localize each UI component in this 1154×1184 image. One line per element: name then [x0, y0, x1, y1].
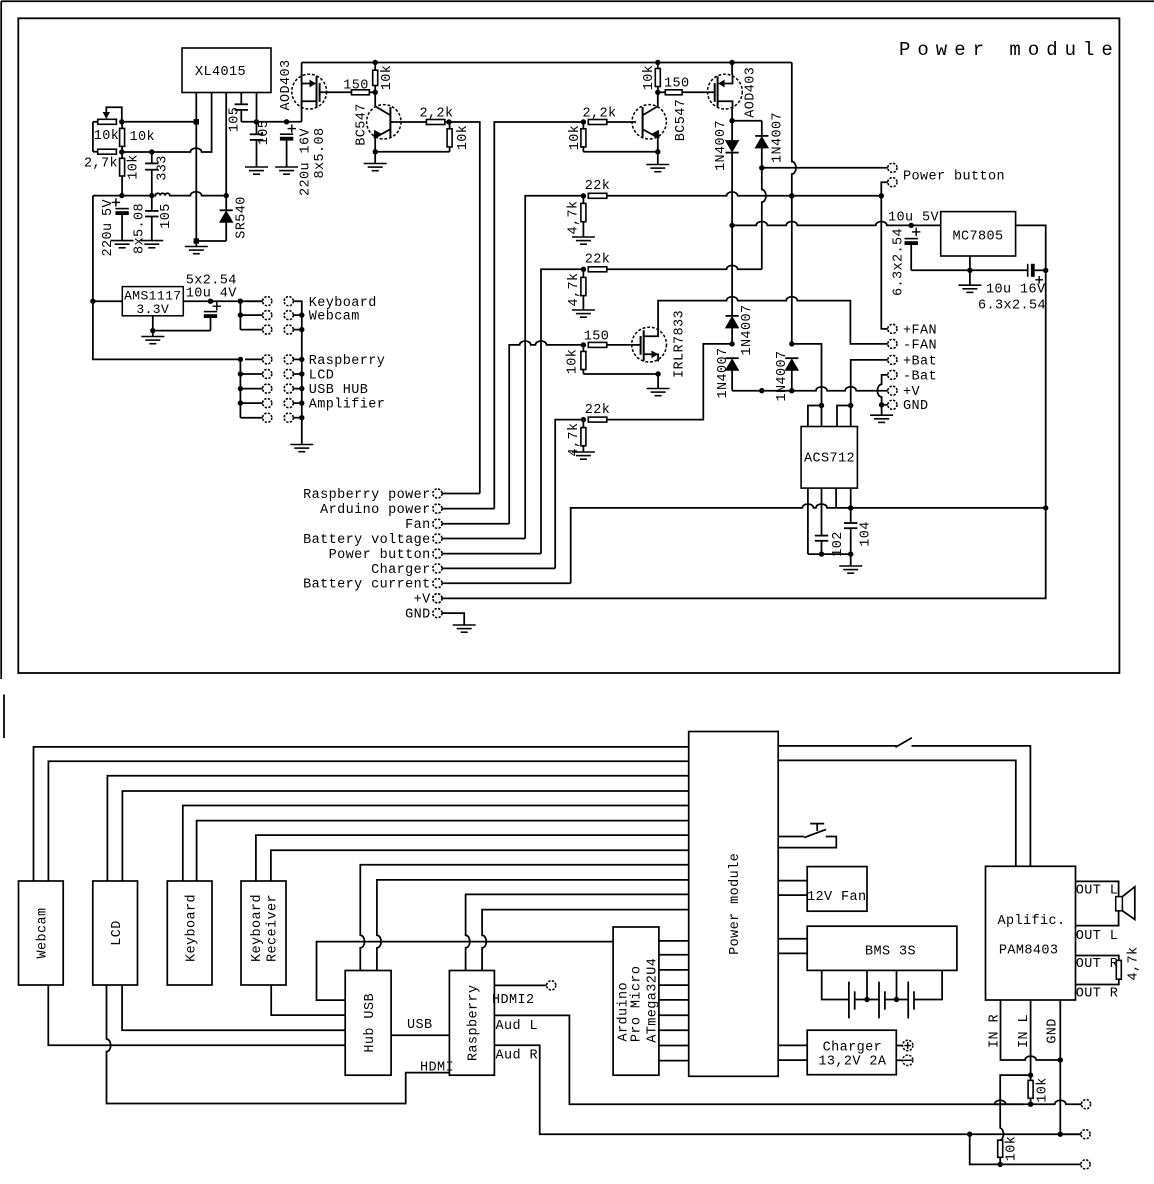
wire D3 to MC7805 input node	[731, 153, 733, 226]
pin circle +FAN	[888, 324, 897, 333]
svg-text:Raspberry power: Raspberry power	[303, 488, 431, 503]
junction dot gnd node right	[879, 402, 884, 407]
Q5 internals	[644, 328, 658, 337]
svg-text:Amplifier: Amplifier	[309, 398, 386, 413]
wire viout line hops to VCC node	[836, 507, 1046, 509]
wire input bus y196 with inductor and hop	[93, 192, 226, 196]
wire hub usb pin1	[360, 865, 688, 971]
resistor R3 2,7k horizontal	[98, 149, 117, 154]
wire bms balance taps	[866, 970, 868, 999]
svg-text:USB: USB	[407, 1018, 433, 1033]
wire stub fan	[442, 523, 509, 525]
wire arduino-pm links	[659, 940, 689, 942]
svg-text:Keyboard: Keyboard	[309, 296, 377, 311]
wire PAM OUT L bottom	[1076, 911, 1119, 926]
junction dot IN L node	[1028, 1072, 1033, 1077]
wire +5V column to +V output line	[442, 508, 1046, 599]
svg-text:Receiver: Receiver	[265, 894, 280, 962]
svg-text:6.3x2.54: 6.3x2.54	[978, 298, 1046, 313]
wire group2 right column to gnd	[293, 358, 302, 360]
svg-text:OUT R: OUT R	[1076, 957, 1119, 972]
svg-text:333: 333	[156, 155, 171, 181]
resistor R9 2,2k base 2	[588, 120, 607, 125]
junction dot R22 bottom on aud L line	[1028, 1102, 1033, 1107]
junction dot IP+ bracket	[819, 403, 824, 408]
wire XL4015 pin3 down to SR540 node	[225, 93, 227, 196]
capacitor C9 10u 16V electrolytic horizontal	[1027, 264, 1029, 277]
wire block4 right to colA mid node	[607, 344, 732, 420]
diode D3 1N4007 (pointing down)	[726, 152, 739, 154]
wire colC down to mid node	[791, 196, 793, 344]
pin circle +V output	[433, 594, 442, 603]
junction dot colA mid	[729, 341, 734, 346]
svg-text:GND: GND	[1045, 1018, 1060, 1044]
resistor R11 10k pullup 2	[657, 63, 659, 69]
speaker LS1	[1116, 897, 1123, 911]
wire webcam pin2	[48, 761, 688, 881]
svg-text:+V: +V	[903, 385, 921, 400]
wire R17 to Q5 gate	[607, 344, 640, 346]
svg-text:150: 150	[584, 330, 610, 345]
capacitor C1 220u 5V electrolytic	[112, 201, 120, 203]
wire AMS1117 gnd pin	[152, 316, 154, 331]
wire pm to fan 1	[778, 880, 807, 882]
wire group1 right column to gnd rail	[293, 301, 302, 444]
junction dot input cap	[909, 223, 914, 228]
wire AOD403 Q1 source to top rail	[301, 63, 303, 122]
Q2 internals	[374, 92, 376, 106]
svg-text:10u 5V: 10u 5V	[888, 210, 940, 225]
wire stub raspberry power	[442, 493, 480, 495]
wire kb receiver pin1	[256, 835, 689, 881]
junction dot 7805 gnd	[967, 268, 972, 273]
junction dot Q5 source	[655, 371, 660, 376]
wire pm to amplifier power with switch	[778, 745, 897, 747]
svg-text:Webcam: Webcam	[309, 310, 360, 325]
resistor R20 4,7k block4	[582, 420, 584, 428]
wire row webcam stub	[240, 314, 262, 316]
resistor R22 10k aud L mix	[1030, 1075, 1032, 1080]
svg-text:BC547: BC547	[355, 103, 370, 146]
block Aplific PAM8403	[986, 866, 1076, 1000]
pin circle GND right	[888, 400, 897, 409]
svg-text:102: 102	[831, 531, 846, 557]
wire IN L branch to aud R mix	[1000, 1075, 1030, 1140]
svg-text:Hub USB: Hub USB	[363, 993, 378, 1053]
svg-text:-FAN: -FAN	[903, 338, 937, 353]
wire PAM IN L pin	[1030, 1000, 1032, 1075]
junction dots group2 left column	[238, 371, 243, 376]
resistor R16 4,7k block2	[582, 269, 584, 277]
wire row Keyboard left stub	[245, 300, 263, 302]
wire push button return	[778, 837, 836, 848]
transistor Q3 BC547 NPN circle (mirrored)	[632, 105, 666, 139]
junction dot output cap 10u	[208, 299, 213, 304]
svg-text:Battery current: Battery current	[303, 578, 431, 593]
ground symbol Q5 source	[657, 374, 659, 389]
wire battery current riser to VIOUT	[571, 504, 836, 583]
wire webcam pin1 to power module	[34, 747, 689, 881]
ground symbol under C4	[245, 166, 268, 168]
wire pin3 to SR540 cathode	[225, 196, 227, 211]
wire webcam bottom to hub	[48, 985, 345, 1045]
wire PAM OUT R bottom	[1076, 979, 1119, 984]
wire IP+ bracket	[808, 406, 822, 427]
junction dot AMS input	[90, 299, 95, 304]
wire pm to bms 2	[778, 952, 807, 954]
wire IP- bracket	[837, 406, 851, 427]
capacitor C8 10u 5V electrolytic	[912, 231, 920, 233]
svg-text:Aud L: Aud L	[496, 1019, 539, 1034]
ground symbol Q3	[657, 152, 659, 165]
svg-text:2,2k: 2,2k	[582, 107, 616, 122]
junction dot Q2 emitter	[373, 149, 378, 154]
block Webcam	[19, 881, 64, 985]
svg-text:1N4007: 1N4007	[716, 347, 731, 398]
wire +V line from colA to pin	[732, 387, 888, 391]
svg-text:Power module: Power module	[899, 39, 1120, 61]
wire gnd pin to aud R line	[1059, 1060, 1061, 1134]
svg-text:220u 16V: 220u 16V	[298, 127, 313, 196]
svg-text:+Bat: +Bat	[903, 354, 937, 369]
wire R8 bottom to emitter	[375, 151, 449, 153]
wire switch to PAM8403 top	[912, 746, 1031, 866]
svg-text:Pro Micro: Pro Micro	[630, 966, 645, 1043]
block 12V Fan	[807, 867, 867, 912]
junction dot pin5/output	[254, 119, 259, 124]
svg-text:MC7805: MC7805	[952, 230, 1003, 245]
svg-text:10u 4V: 10u 4V	[186, 287, 238, 302]
resistor R19 22k block4	[588, 417, 607, 422]
ground symbol 7805	[969, 270, 971, 285]
transistor Q2 BC547 NPN circle	[367, 105, 401, 139]
block Charger	[807, 1030, 896, 1075]
svg-text:105: 105	[159, 203, 174, 229]
svg-text:4,7k: 4,7k	[567, 200, 582, 234]
svg-text:10k: 10k	[94, 129, 120, 144]
resistor R15 22k block2	[588, 267, 607, 272]
wire -Bat to gnd node	[877, 375, 887, 405]
svg-text:HDMI: HDMI	[420, 1061, 454, 1076]
wire colA node to D3 and down	[731, 121, 733, 141]
resistor R5 150 gate	[352, 90, 370, 95]
svg-text:AOD403: AOD403	[279, 59, 294, 110]
wire signal raspberry-power riser	[449, 122, 480, 494]
wire aud R down to mix resistor line	[970, 1134, 1081, 1164]
wire pm to charger 2	[778, 1059, 807, 1061]
svg-text:13,2V 2A: 13,2V 2A	[818, 1055, 887, 1070]
wire R9 to Q3 base	[607, 121, 636, 123]
ground symbol block2	[572, 309, 595, 311]
resistor R21 4,7k speaker load	[1116, 960, 1121, 979]
wire row3 stub	[240, 329, 262, 331]
svg-text:150: 150	[664, 77, 690, 92]
pin circles group2 column A	[263, 355, 272, 364]
wire R7 to node	[445, 121, 449, 123]
junction dot gate node Q1	[373, 90, 378, 95]
pin circle jack tip	[1081, 1100, 1090, 1109]
wire PAM IN R pin to gnd link	[1001, 1000, 1061, 1060]
junction dot C9 right	[1043, 268, 1048, 273]
pin circles group2 column B	[284, 355, 293, 364]
wire lcd pin4 to hub	[122, 985, 345, 1030]
pin circles group1 column B	[284, 297, 293, 306]
svg-text:Charger: Charger	[371, 563, 431, 578]
pin circle HDMI2	[547, 981, 556, 990]
wire AMS1117 output to connector	[183, 300, 262, 302]
wire ACS VCC pin and cap 104	[850, 488, 852, 523]
wire keyboard pin1	[183, 806, 689, 882]
ground symbol under C5	[275, 166, 298, 168]
wire lcd hdmi to raspberry	[107, 985, 450, 1104]
junction dot colA 7805 node	[729, 223, 734, 228]
pin circle +V	[888, 386, 897, 395]
Q1 internals channel gate arrow	[302, 75, 310, 84]
capacitor C4 105 pin5 to ground	[256, 122, 258, 135]
wire 7805 gnd pin	[969, 256, 971, 270]
wire SR540 anode down to ground wire	[225, 222, 227, 241]
svg-text:1N4007: 1N4007	[714, 120, 729, 171]
charger DC plus terminal	[896, 1045, 902, 1047]
diode D4 1N4007 (up)	[726, 315, 739, 317]
svg-text:XL4015: XL4015	[195, 65, 246, 80]
wire battery voltage riser and block1 line y196	[525, 196, 583, 539]
junction dot block1	[581, 193, 586, 198]
wire pm to push button	[778, 836, 804, 838]
svg-text:150: 150	[343, 79, 369, 94]
wire 3v3 connector column	[239, 301, 241, 329]
Q3 internals	[657, 92, 659, 106]
svg-text:6.3x2.54: 6.3x2.54	[892, 228, 907, 296]
wire kb receiver pin2	[271, 850, 689, 881]
wire trimmer left side	[93, 121, 98, 123]
wire colC mid to ACS IP+ feed	[792, 344, 822, 406]
svg-text:OUT L: OUT L	[1076, 929, 1119, 944]
junction dot raspberry row	[238, 357, 243, 362]
svg-text:Keyboard: Keyboard	[184, 894, 199, 962]
block Hub USB	[345, 971, 391, 1076]
wire R18 bottom to source	[583, 373, 658, 375]
wire battery rail down-left to Raspberry row	[93, 301, 241, 359]
wire lcd pin2	[122, 791, 688, 881]
diode D5 1N4007 (up)	[726, 357, 739, 359]
wire hub-arduino usb link	[317, 942, 614, 1001]
wire Q5 drain to -FAN line	[658, 297, 888, 344]
switch SW1 lever	[896, 738, 912, 748]
svg-text:LCD: LCD	[309, 369, 335, 384]
svg-text:10k: 10k	[127, 154, 142, 180]
wire hub to raspberry USB	[391, 1034, 449, 1036]
wire colA down through hop to D4	[731, 225, 733, 316]
block Keyboard Receiver	[241, 881, 286, 985]
resistor R4 10k vertical lower	[121, 152, 123, 158]
junction dot block1 colC	[789, 193, 794, 198]
svg-text:5V: 5V	[101, 199, 116, 217]
wire pm line2 to PAM8403	[778, 760, 1016, 866]
svg-text:Aud R: Aud R	[496, 1049, 539, 1064]
junction dot R11 rail	[655, 60, 660, 65]
svg-text:10k: 10k	[568, 125, 583, 151]
svg-text:LCD: LCD	[110, 920, 125, 946]
junction dot 3v3 column top	[238, 299, 243, 304]
junction dot base node 1	[446, 119, 451, 124]
junction dots +V line	[759, 388, 764, 393]
resistor R8 10k base pulldown	[449, 122, 451, 129]
wire C7 bottom to AMS gnd	[153, 330, 211, 332]
svg-text:AOD403: AOD403	[744, 67, 759, 118]
junction dot block2	[581, 267, 586, 272]
svg-text:4,7k: 4,7k	[567, 272, 582, 306]
battery B1 3S cells	[822, 970, 849, 999]
ground symbol under C6	[140, 240, 163, 242]
junction dot colB power button	[759, 165, 764, 170]
wire Q4 drain to node	[731, 109, 733, 121]
ground symbol connector column	[290, 444, 313, 446]
svg-text:BC547: BC547	[674, 99, 689, 142]
junction dot AMS gnd	[150, 328, 155, 333]
wire node y122 trimmer to pin1	[122, 121, 197, 123]
wire PAM OUT R top	[1076, 956, 1119, 961]
svg-text:+FAN: +FAN	[903, 323, 937, 338]
pin circle +Bat	[888, 355, 897, 364]
wire group2 left column	[239, 359, 241, 417]
wire stub battery voltage	[442, 538, 525, 540]
svg-text:Battery voltage: Battery voltage	[303, 533, 431, 548]
junction dot Q3 collector gate node	[655, 90, 660, 95]
wire kb receiver bottom to hub	[271, 985, 345, 1015]
sheet outer border (partial, cropped)	[0, 1, 2, 679]
wire aud R line to jack ring	[1060, 1133, 1081, 1135]
wire stub charger	[442, 567, 555, 569]
svg-text:GND: GND	[903, 399, 929, 414]
svg-text:12V Fan: 12V Fan	[807, 890, 867, 905]
svg-text:Charger: Charger	[823, 1041, 883, 1056]
wire gnd stub to pin	[882, 404, 888, 406]
Q4 internals	[725, 75, 733, 84]
transistor Q1 AOD403 PMOS circle	[292, 74, 327, 109]
wire SR540 anode to pin1 ground node	[196, 240, 226, 242]
wire raspberry HDMI2 port	[494, 984, 546, 986]
svg-text:PAM8403: PAM8403	[999, 943, 1059, 958]
frame border of power module sheet	[18, 18, 1119, 673]
resistor R12 150 gate 2	[658, 91, 666, 93]
wire fan signal riser and gate line	[509, 341, 583, 524]
junction dots group2 right column	[299, 357, 304, 362]
svg-text:220u: 220u	[101, 222, 116, 256]
wire +Bat from ACS712	[851, 360, 888, 406]
svg-text:BMS 3S: BMS 3S	[865, 945, 916, 960]
pin circle jack sleeve	[1081, 1160, 1090, 1169]
wire ACS VIOUT pin	[835, 488, 837, 508]
junction dot R23 bottom	[998, 1162, 1003, 1167]
svg-text:Arduino power: Arduino power	[320, 503, 431, 518]
resistor R1 10k trimmer top (horizontal)	[98, 119, 117, 124]
block LCD	[93, 881, 138, 985]
wire raspberry pin1	[466, 894, 689, 970]
svg-text:1N4007: 1N4007	[740, 304, 755, 355]
junction dot colC mid node	[789, 341, 794, 346]
svg-text:22k: 22k	[585, 179, 611, 194]
junction dot base node 2	[581, 119, 586, 124]
wire ACS FILTER pin and cap 102	[821, 488, 823, 535]
svg-text:OUT L: OUT L	[1076, 883, 1119, 898]
resistor R2 10k vertical feedback	[121, 122, 123, 129]
wire charger riser and block4 line	[555, 420, 583, 569]
svg-text:Aplific.: Aplific.	[997, 914, 1065, 929]
junction dot Q4 source rail	[729, 60, 734, 65]
junction dots ACS gnd line	[819, 551, 824, 556]
capacitor C6 105 on bus	[151, 196, 153, 211]
IC U3 MC7805 box	[941, 212, 1016, 256]
wire stub arduino power	[442, 508, 494, 510]
svg-text:10k: 10k	[456, 125, 471, 151]
pin circle jack ring	[1081, 1130, 1090, 1139]
svg-text:SR540: SR540	[235, 196, 250, 239]
wire colB down to block2 line	[762, 168, 766, 269]
svg-text:105: 105	[257, 120, 272, 146]
wire bus left end down to AMS1117 input	[92, 196, 94, 302]
svg-text:2,7k: 2,7k	[84, 157, 118, 172]
ground symbol block4	[572, 451, 595, 453]
wire +5V column down	[1045, 270, 1047, 508]
svg-text:10k: 10k	[130, 130, 156, 145]
junction dot output electrolytic	[284, 119, 289, 124]
resistor R17 150 gate IRLR	[588, 342, 607, 347]
svg-text:10k: 10k	[380, 65, 395, 91]
pin circle power button 1	[888, 163, 897, 172]
svg-text:1N4007: 1N4007	[771, 112, 786, 163]
block Power module	[689, 732, 779, 1077]
wire raspberry Aud L	[494, 1015, 1023, 1104]
partial sheet border bottom section	[3, 695, 5, 739]
ground symbol block1	[572, 236, 595, 238]
wire stub battery current	[442, 582, 571, 584]
charger DC minus terminal	[896, 1059, 902, 1061]
svg-text:USB HUB: USB HUB	[309, 383, 369, 398]
junction square pin1 ground node	[194, 238, 199, 243]
wire colA D5	[731, 328, 733, 344]
svg-text:+V: +V	[414, 593, 432, 608]
transistor Q5 IRLR7833 NMOS circle	[632, 327, 667, 362]
junction dot Q3 emitter	[655, 149, 660, 154]
svg-text:22k: 22k	[585, 253, 611, 268]
junction dot gate line	[581, 342, 586, 347]
ground symbol under XL4015	[195, 241, 197, 247]
transistor Q4 AOD403 PMOS circle (mirrored)	[708, 74, 743, 109]
junction dot pin2 node	[879, 193, 884, 198]
wire PAM GND pin down	[1059, 1000, 1061, 1060]
resistor R7 2,2k base	[426, 120, 445, 125]
wire signal arduino-power riser	[494, 122, 583, 509]
wire ACS GND pin down	[807, 488, 809, 554]
junction dot row webcam	[238, 312, 243, 317]
svg-text:Raspberry: Raspberry	[467, 985, 482, 1062]
wire R12 to Q4 gate	[682, 91, 715, 93]
resistor R23 10k aud R mix	[998, 1140, 1003, 1157]
IC U1 XL4015 box	[182, 48, 271, 93]
resistor R18 10k gate pulldown	[582, 345, 584, 352]
wire colA bottom to +V line	[731, 370, 733, 391]
svg-text:Power button: Power button	[329, 548, 431, 563]
pin circle -Bat	[888, 370, 897, 379]
wire pm to fan 2	[778, 894, 807, 896]
svg-text:OUT R: OUT R	[1076, 986, 1119, 1001]
junction square node pin1/feedback	[194, 119, 199, 124]
ground symbol ACS	[850, 554, 852, 566]
svg-text:8x5.08: 8x5.08	[313, 127, 328, 178]
junction dot R6 top on rail	[373, 60, 378, 65]
svg-text:105: 105	[228, 107, 243, 133]
